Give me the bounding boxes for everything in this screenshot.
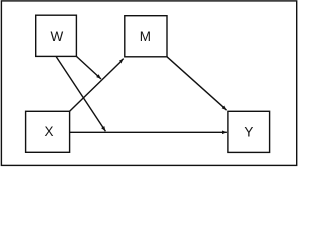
svg-text:Y: Y: [244, 124, 253, 139]
svg-text:X: X: [44, 124, 53, 139]
svg-text:W: W: [50, 29, 63, 44]
svg-text:M: M: [140, 29, 151, 44]
